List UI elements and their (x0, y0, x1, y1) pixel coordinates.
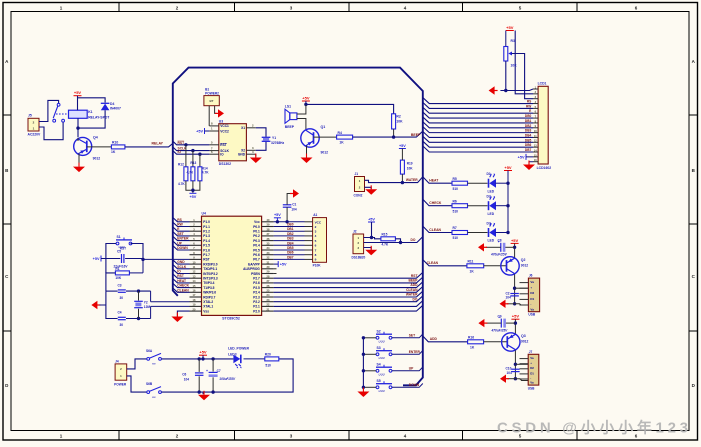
power +5V DS18B20 (368, 217, 375, 222)
svg-text:+5V: +5V (189, 195, 196, 199)
svg-text:S3: S3 (377, 346, 381, 350)
push button S4 UP (376, 362, 392, 376)
svg-text:P0.4: P0.4 (253, 244, 260, 248)
resistor R11 1K (467, 264, 484, 268)
node crystal bottom junction (137, 317, 140, 320)
svg-text:DOWN: DOWN (409, 383, 420, 387)
svg-text:RST: RST (178, 141, 185, 145)
wire R10 to module edge net RELAY (125, 143, 173, 147)
svg-text:D1: D1 (530, 297, 534, 301)
svg-text:10K: 10K (407, 166, 414, 170)
svg-text:LCD1602: LCD1602 (537, 166, 552, 170)
svg-text:DB7: DB7 (287, 255, 294, 259)
wire Q4 emitter to ground (78, 154, 80, 167)
wire C2 bottom to ground arrow (507, 303, 515, 305)
wire LED D3 to +5V rail (496, 232, 509, 234)
node LED D3 rail junction (506, 231, 509, 234)
svg-text:S4: S4 (377, 362, 381, 366)
svg-text:RXD/P3.0: RXD/P3.0 (203, 262, 217, 266)
svg-text:P2.6: P2.6 (253, 281, 260, 285)
node LED D1 rail junction (506, 182, 509, 185)
ground arrow right of battery (215, 109, 224, 117)
wire +5V down to pin1 (364, 222, 372, 238)
svg-text:ʋʋʋ: ʋʋʋ (379, 356, 385, 360)
svg-text:DS18B20: DS18B20 (352, 255, 366, 259)
wire pot bottom to ground arrow (500, 61, 505, 91)
svg-text:R19: R19 (407, 161, 413, 165)
svg-text:+5V: +5V (74, 90, 82, 95)
svg-text:C1: C1 (292, 203, 296, 207)
power +5V Q2 emitter (511, 238, 519, 244)
node Q3 collector junction (514, 363, 517, 366)
svg-text:30: 30 (120, 323, 124, 327)
wire J1 pin1 to WATER net (365, 180, 403, 182)
wire U4 P2.4 to module edge (274, 287, 423, 293)
ground under U3 (250, 154, 262, 164)
svg-text:DB7: DB7 (525, 148, 532, 152)
svg-text:4.7K: 4.7K (202, 171, 209, 175)
svg-text:RELAY: RELAY (151, 142, 163, 146)
wire U4 Vcc to resistor pack A1 (274, 221, 305, 223)
svg-text:SET: SET (177, 232, 183, 236)
ground arrow above C1 (290, 189, 299, 197)
potentiometer R3 10K (504, 47, 508, 62)
wire ground node to LCD VSS pin (506, 89, 533, 91)
LED3 power indicator (233, 355, 241, 369)
svg-text:D2: D2 (530, 366, 534, 370)
resistor R20 510 (265, 357, 279, 361)
svg-text:R6: R6 (453, 199, 457, 203)
wire +5V stub (202, 355, 204, 359)
svg-text:P1.7: P1.7 (203, 253, 210, 257)
wire net SCLK to module edge (173, 265, 190, 269)
node C1 Vcc junction (285, 220, 288, 223)
power +5V LED rail (504, 165, 512, 171)
U3 right pin stubs (246, 127, 255, 129)
svg-text:C6: C6 (182, 372, 186, 376)
node button rail junction (362, 353, 365, 356)
resistor R10 (111, 145, 125, 149)
node DO junction (399, 241, 402, 244)
svg-text:RS: RS (527, 100, 531, 104)
svg-text:Q3: Q3 (521, 334, 526, 338)
svg-text:4.7K: 4.7K (187, 171, 194, 175)
border row ticks left (3, 114, 11, 116)
wire power top rail (161, 358, 233, 360)
wire +5V to R19 top (401, 149, 403, 161)
svg-text:D2: D2 (530, 291, 534, 295)
power +5V main (199, 350, 207, 356)
svg-text:GND: GND (177, 260, 185, 264)
svg-text:IO: IO (220, 153, 224, 157)
wire net RW to module edge (173, 222, 190, 226)
svg-text:VCC1: VCC1 (220, 124, 229, 128)
push button S3 ENTER (376, 346, 392, 360)
power +5V Q3 emitter (511, 314, 519, 320)
wire net RS to LCD pin 4 (423, 98, 533, 104)
wire pullups common rail (186, 181, 200, 190)
svg-text:P0.3: P0.3 (253, 239, 260, 243)
svg-text:LED: LED (488, 239, 495, 243)
ground under J1 (365, 185, 377, 195)
node RST pullup junction (184, 143, 187, 146)
wire XTAL1 to MCU (150, 306, 152, 318)
svg-text:+5V: +5V (274, 213, 281, 217)
wire relay coil bottom to Q4 collector (77, 118, 79, 137)
svg-text:8: 8 (315, 253, 317, 257)
svg-text:U3: U3 (219, 119, 223, 123)
ground under U4 (171, 313, 183, 323)
resistor R12 4.7K (185, 145, 187, 167)
wire net DB5 P0.5 to pack A1 (274, 249, 305, 251)
svg-text:ADD: ADD (430, 337, 438, 341)
wire U4 P2.2 to module edge (274, 296, 423, 302)
svg-text:P0.1: P0.1 (253, 230, 260, 234)
wire net DB5 to LCD pin 12 (423, 136, 533, 142)
svg-text:GND: GND (238, 153, 246, 157)
svg-text:Va: Va (530, 356, 534, 360)
svg-text:+5V: +5V (93, 257, 100, 261)
svg-text:510: 510 (453, 236, 459, 240)
wire beeper +5V rail to R2 (306, 104, 394, 113)
wire R6 to LED D2 (468, 205, 488, 207)
wire R5 to LED D1 (468, 182, 488, 184)
svg-text:D2: D2 (487, 195, 491, 199)
svg-text:R3: R3 (511, 39, 515, 43)
svg-text:4.7K: 4.7K (178, 182, 185, 186)
svg-text:SET: SET (409, 333, 415, 337)
svg-text:K1: K1 (88, 110, 92, 114)
wire +5V down to rail (305, 101, 307, 104)
svg-text:RW: RW (526, 104, 531, 108)
wire net E to module edge (173, 227, 190, 231)
U3 left pin stubs (209, 125, 218, 127)
USB1 pin stubs (520, 282, 529, 284)
svg-text:DB6: DB6 (525, 143, 532, 147)
wire battery positive to DS1302 VCC1 (208, 106, 210, 126)
svg-text:T1/P3.5: T1/P3.5 (203, 286, 214, 290)
svg-text:RST: RST (177, 274, 184, 278)
svg-text:ENTER: ENTER (409, 350, 421, 354)
svg-text:P1.4: P1.4 (203, 239, 210, 243)
wire net DB1 to LCD pin 8 (423, 117, 533, 123)
wire Q2 collector down to connector (514, 274, 516, 304)
crystal Y2 12MHz (138, 291, 140, 300)
U4 left pin stubs (190, 221, 202, 223)
capacitor C3 30pF (118, 290, 126, 292)
node C10 ground junction (514, 377, 517, 380)
wire Q4 base to R10 (87, 146, 112, 148)
wire ground arrow to rail (99, 304, 106, 306)
wire Q3 collector down to connector (514, 350, 516, 378)
resistor R14 4.7K (199, 154, 201, 167)
svg-text:P2.1: P2.1 (253, 305, 260, 309)
svg-text:P0.0: P0.0 (253, 225, 260, 229)
wire S3 to module edge net ENTER (392, 351, 423, 355)
power +5V LCD backlight (518, 154, 526, 160)
svg-text:UP: UP (177, 241, 182, 245)
wire pot wiper to LCD V0 (512, 54, 534, 99)
svg-text:-: - (530, 302, 531, 306)
svg-text:9012: 9012 (93, 157, 101, 161)
svg-text:AC220V: AC220V (28, 133, 42, 137)
svg-text:+5V: +5V (196, 129, 203, 133)
relay switch lever (53, 106, 58, 118)
svg-text:C10: C10 (506, 367, 512, 371)
USB2 pin stubs (520, 358, 529, 360)
svg-text:XTAL2: XTAL2 (203, 300, 213, 304)
svg-text:DO: DO (411, 238, 416, 242)
wire S5 to module edge net DOWN (392, 384, 423, 388)
wire module edge to net SCLK of DS1302 (173, 147, 210, 151)
border column ticks bottom (118, 431, 120, 441)
svg-text:4: 4 (315, 234, 317, 238)
transistor Q4 9012 (74, 137, 92, 155)
svg-text:RW: RW (177, 223, 183, 227)
svg-text:P1.1: P1.1 (203, 225, 210, 229)
svg-text:R10: R10 (112, 141, 118, 145)
svg-text:9012: 9012 (521, 263, 529, 267)
svg-text:+5V: +5V (512, 314, 520, 319)
svg-text:P2.2: P2.2 (253, 300, 260, 304)
svg-text:9012: 9012 (321, 150, 329, 154)
push button S5 DOWN (376, 379, 392, 393)
svg-text:Y1: Y1 (272, 136, 276, 140)
svg-text:P2.4: P2.4 (253, 291, 260, 295)
LCD1 pin stubs (533, 88, 538, 90)
node C2 ground junction (513, 302, 516, 305)
capacitor C2 104 (510, 294, 518, 296)
wire net DOWN to module edge (173, 246, 190, 250)
node DS18B20 vcc junction (370, 236, 373, 239)
wire buttons left rail (362, 338, 364, 390)
resistor R1 10K (115, 271, 129, 275)
wire module edge to net IO of DS1302 (173, 151, 210, 155)
svg-text:P2.5: P2.5 (253, 286, 260, 290)
svg-text:CLEAN: CLEAN (429, 228, 441, 232)
wire net SET to module edge (173, 232, 190, 236)
wire net DB0 to LCD pin 7 (423, 112, 533, 118)
svg-text:32768Hz: 32768Hz (271, 141, 285, 145)
wire U4 P2.1 to module edge (274, 301, 423, 307)
svg-text:D1: D1 (487, 172, 491, 176)
svg-text:D4: D4 (110, 102, 114, 106)
svg-text:104: 104 (506, 296, 512, 300)
wire net GND to module edge (173, 260, 190, 264)
wire U4 P2.0 to module edge (274, 305, 423, 311)
svg-text:104: 104 (291, 208, 297, 212)
wire power top rail after R20 (161, 359, 293, 392)
wire left rail to S5 (363, 386, 376, 388)
wire crystal to U3 X2 (256, 142, 266, 150)
svg-text:+: + (530, 286, 532, 290)
svg-text:P1.0: P1.0 (203, 220, 210, 224)
svg-text:C9: C9 (498, 314, 502, 318)
ground arrow LCD VSS (489, 86, 498, 94)
svg-text:Va: Va (530, 381, 534, 385)
svg-text:1K: 1K (470, 270, 475, 274)
svg-text:A1: A1 (313, 213, 317, 217)
svg-text:UP: UP (409, 366, 414, 370)
svg-text:J6: J6 (529, 274, 533, 278)
wire left rail to S4 (363, 370, 376, 372)
svg-text:XTAL1: XTAL1 (203, 305, 213, 309)
wire ground node to USB2 pin5 (515, 379, 528, 381)
node button rail junction (362, 336, 365, 339)
wire net CLEAN to module edge (173, 288, 190, 292)
wire net DB6 to LCD pin 13 (423, 141, 533, 147)
svg-text:ALE/PROG: ALE/PROG (243, 267, 260, 271)
resistor R2 10K (392, 114, 396, 129)
ground under Q4 (73, 163, 85, 173)
svg-text:DB0: DB0 (287, 223, 294, 227)
wire +5V to Q3 emitter (514, 319, 516, 334)
wire +5V to relay coil top rail (77, 96, 79, 111)
svg-text:470uF/25V: 470uF/25V (490, 252, 508, 256)
wire J2 pin3 to ground (364, 248, 372, 250)
wire collector node to USB1 pin2 (515, 287, 529, 289)
wire ground node to USB1 pin5 (515, 304, 529, 305)
svg-text:10K: 10K (396, 120, 403, 124)
svg-text:IN4007: IN4007 (110, 106, 121, 110)
wire net DB3 to LCD pin 10 (423, 127, 533, 133)
resistor R4 1K (337, 135, 353, 139)
svg-text:Y2: Y2 (144, 300, 148, 304)
transistor Q2 9012 (501, 257, 519, 275)
svg-text:P2.3: P2.3 (253, 295, 260, 299)
node C7 top junction (211, 357, 214, 360)
wire C1 bottom to Vcc rail (286, 207, 288, 222)
wire S2 to module edge net SET (392, 334, 423, 338)
svg-text:Q4: Q4 (93, 136, 98, 140)
wire R7 to LED D3 (468, 232, 488, 234)
node C6 top junction (198, 357, 201, 360)
svg-text:RST: RST (203, 258, 209, 262)
ground below buttons (357, 388, 369, 398)
svg-text:+5V: +5V (506, 25, 514, 30)
wire +5V to LCD pin15 (526, 156, 533, 158)
wire J2 data pin to module edge net DO (364, 237, 423, 243)
svg-text:POWER: POWER (114, 382, 127, 386)
svg-text:P1.3: P1.3 (203, 234, 210, 238)
svg-text:1K: 1K (111, 150, 116, 154)
capacitor C5 22uF (122, 254, 124, 263)
wire J5 pin2 to switch pole (39, 100, 59, 121)
wire net DB3 P0.3 to pack A1 (274, 240, 305, 242)
svg-text:S6A: S6A (146, 349, 153, 353)
wire left rail to S3 (363, 353, 376, 355)
svg-text:R2: R2 (396, 115, 400, 119)
node main +5V junction (201, 357, 204, 360)
svg-text:J5: J5 (28, 114, 32, 118)
wire collector node to USB2 pin2 (515, 363, 528, 365)
svg-text:+5V: +5V (511, 238, 519, 243)
svg-text:P0.2: P0.2 (253, 234, 260, 238)
svg-text:+5V: +5V (504, 165, 512, 170)
U4 PSEN pin stub wire (274, 273, 277, 275)
svg-text:IO: IO (178, 150, 182, 154)
svg-text:D3: D3 (487, 221, 491, 225)
switch S6B (146, 382, 161, 399)
wire S1 left leg (106, 244, 116, 273)
wire C9 to ground arrow (486, 322, 501, 324)
svg-text:USB: USB (528, 313, 535, 317)
node relay bottom junction (76, 126, 79, 129)
ground arrow left of C8 (478, 243, 487, 251)
svg-text:P10K: P10K (313, 263, 322, 267)
capacitor C1 104 (283, 205, 292, 207)
svg-text:WR/P3.6: WR/P3.6 (203, 291, 216, 295)
wire net DB2 P0.2 to pack A1 (274, 235, 305, 237)
svg-text:10K: 10K (511, 64, 518, 68)
wire battery negative to ground arrow (215, 106, 217, 114)
svg-text:C3: C3 (118, 284, 122, 288)
wire C8 to ground arrow (486, 246, 501, 248)
ground under Q1 (301, 154, 313, 164)
svg-text:VCC: VCC (315, 220, 322, 224)
svg-text:DB3: DB3 (525, 129, 532, 133)
node reset RC junction (141, 258, 144, 261)
transistor Q1 9012 (301, 129, 319, 147)
transistor Q3 9012 (502, 333, 520, 351)
wire LED D1 to +5V rail (496, 182, 509, 184)
wire Q1 emitter to ground (306, 146, 308, 158)
wire module edge to net CLEAN drive (423, 260, 467, 266)
wire U4 Vss to ground (177, 311, 189, 316)
resistor R7 510 (452, 231, 468, 235)
svg-text:DS1302: DS1302 (219, 162, 231, 166)
wire net IO to module edge (173, 269, 190, 273)
wire R11 to Q2 base (484, 265, 507, 267)
svg-text:3: 3 (315, 230, 317, 234)
svg-text:EA/VPP: EA/VPP (248, 262, 261, 266)
svg-text:D1: D1 (530, 371, 534, 375)
MCU U4 STC89C52 body (202, 216, 262, 315)
svg-text:R1: R1 (115, 267, 119, 271)
svg-text:4.7K: 4.7K (382, 243, 389, 247)
svg-text:S1: S1 (117, 235, 121, 239)
ground under LCD (523, 161, 535, 171)
svg-text:INT0/P3.2: INT0/P3.2 (203, 272, 218, 276)
resistor pack A1 P10K (313, 218, 327, 263)
border column ticks top (118, 3, 120, 12)
wire net E to LCD pin 6 (423, 107, 533, 113)
wire R15 to DO wire (395, 239, 400, 243)
LED D1 (489, 174, 497, 188)
svg-text:30: 30 (120, 296, 124, 300)
svg-text:VCC2: VCC2 (220, 129, 229, 133)
wire R2 bottom to base node (393, 129, 395, 137)
svg-text:S2: S2 (377, 329, 381, 333)
svg-text:100uF/25V: 100uF/25V (219, 377, 236, 381)
svg-text:ʋʋʋ: ʋʋʋ (379, 372, 385, 376)
svg-text:HEAT: HEAT (177, 279, 186, 283)
svg-text:IO: IO (177, 270, 181, 274)
node SCLK pullup junction (191, 149, 194, 152)
power +5V pullup rail (189, 193, 196, 199)
capacitor C7 100uF/25V (212, 359, 214, 372)
svg-text:P2.7: P2.7 (253, 277, 260, 281)
node WATER junction (401, 181, 404, 184)
svg-text:DB6: DB6 (287, 251, 294, 255)
wire net HEAT to module edge (173, 279, 190, 283)
svg-text:+: + (206, 369, 208, 373)
svg-text:DB0: DB0 (525, 114, 532, 118)
svg-text:R7: R7 (453, 226, 457, 230)
wire R4 to module edge net BEEP (353, 131, 423, 137)
relay switch pole contact (57, 103, 60, 106)
svg-text:Vcc: Vcc (254, 220, 260, 224)
